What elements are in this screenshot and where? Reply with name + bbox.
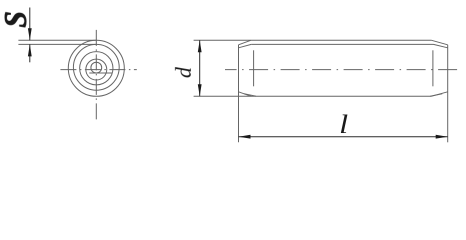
dimension l left arrow <box>239 135 251 139</box>
label S <box>0 11 33 28</box>
top-right seam lead <box>434 44 448 47</box>
pin bottom edge with d extension line <box>194 95 432 97</box>
dimension S upper arrow <box>28 28 32 40</box>
svg-text:S: S <box>0 11 33 28</box>
coil seam line along body <box>251 43 433 45</box>
coil turn 2 <box>73 44 119 90</box>
svg-text:d: d <box>171 66 196 78</box>
top-left chamfer <box>239 40 251 45</box>
top-left seam lead <box>239 44 252 47</box>
left chamfer transition line <box>253 50 255 86</box>
dimension d lower arrow <box>198 84 202 96</box>
dimension d line <box>199 40 201 96</box>
right chamfer transition line <box>432 50 434 86</box>
left view: coiled spring pin end view <box>18 30 136 121</box>
label d <box>171 66 196 78</box>
pin right edge with l extension line <box>447 45 449 143</box>
coil turn 3 <box>80 52 113 85</box>
side view centerline <box>225 69 461 71</box>
side view: pin outline <box>194 40 461 142</box>
horizontal centerline of end view <box>60 69 136 71</box>
bottom-left chamfer <box>239 92 251 96</box>
dimension S leader lines <box>29 8 31 63</box>
dimension l line <box>239 136 448 138</box>
dimension l right arrow <box>436 135 448 139</box>
coil inner end tangent line <box>89 72 112 74</box>
svg-text:l: l <box>339 111 348 139</box>
coil turn 4 <box>86 59 107 80</box>
pin left edge with l extension line <box>238 45 240 143</box>
bottom-right seam lead <box>430 94 442 96</box>
bottom-right chamfer <box>432 92 448 96</box>
pin top edge with d extension line <box>194 39 432 41</box>
bottom-left seam lead <box>244 94 256 96</box>
dimension d upper arrow <box>198 40 202 52</box>
strip outer tangent line <box>18 39 96 41</box>
label l <box>339 111 348 139</box>
top-right chamfer <box>432 40 448 45</box>
coil inner end circle <box>91 62 102 73</box>
outer circle of coil <box>68 40 124 96</box>
strip inner tangent line <box>18 43 96 45</box>
dimension S lower arrow <box>28 44 32 56</box>
vertical centerline of end view <box>95 30 97 121</box>
